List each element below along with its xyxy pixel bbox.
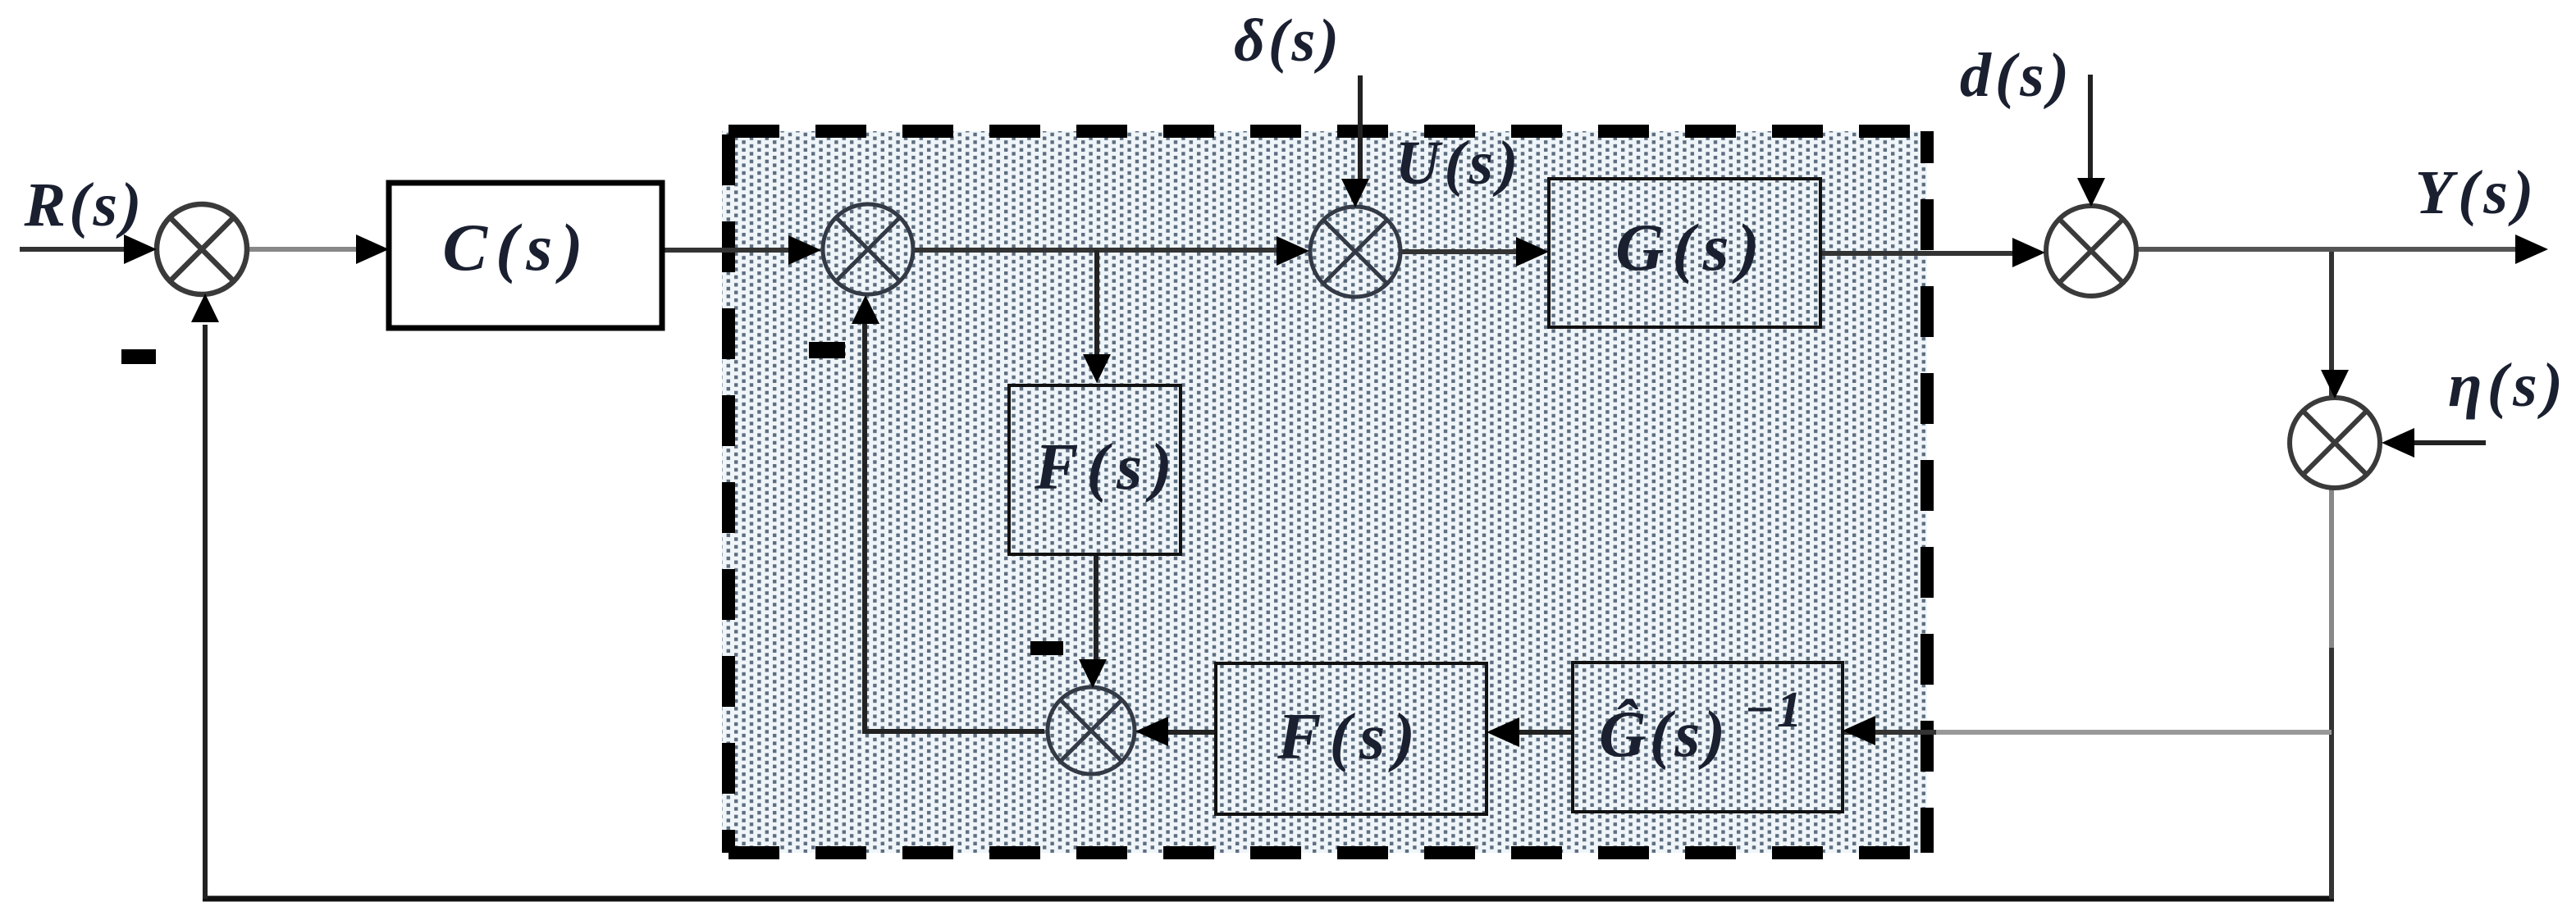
svg-text:F(s): F(s): [1034, 431, 1181, 503]
svg-text:C(s): C(s): [442, 210, 591, 285]
svg-text:η(s): η(s): [2448, 351, 2568, 420]
svg-text:−1: −1: [1744, 682, 1804, 738]
svg-text:d(s): d(s): [1960, 41, 2073, 110]
svg-text:U(s): U(s): [1395, 129, 1522, 198]
svg-text:Y(s): Y(s): [2415, 158, 2539, 227]
svg-text:R(s): R(s): [24, 171, 145, 239]
svg-text:G(s): G(s): [1615, 210, 1768, 285]
svg-text:Ĝ(s): Ĝ(s): [1599, 698, 1729, 771]
svg-text:δ(s): δ(s): [1234, 7, 1342, 75]
svg-text:F(s): F(s): [1277, 701, 1423, 773]
